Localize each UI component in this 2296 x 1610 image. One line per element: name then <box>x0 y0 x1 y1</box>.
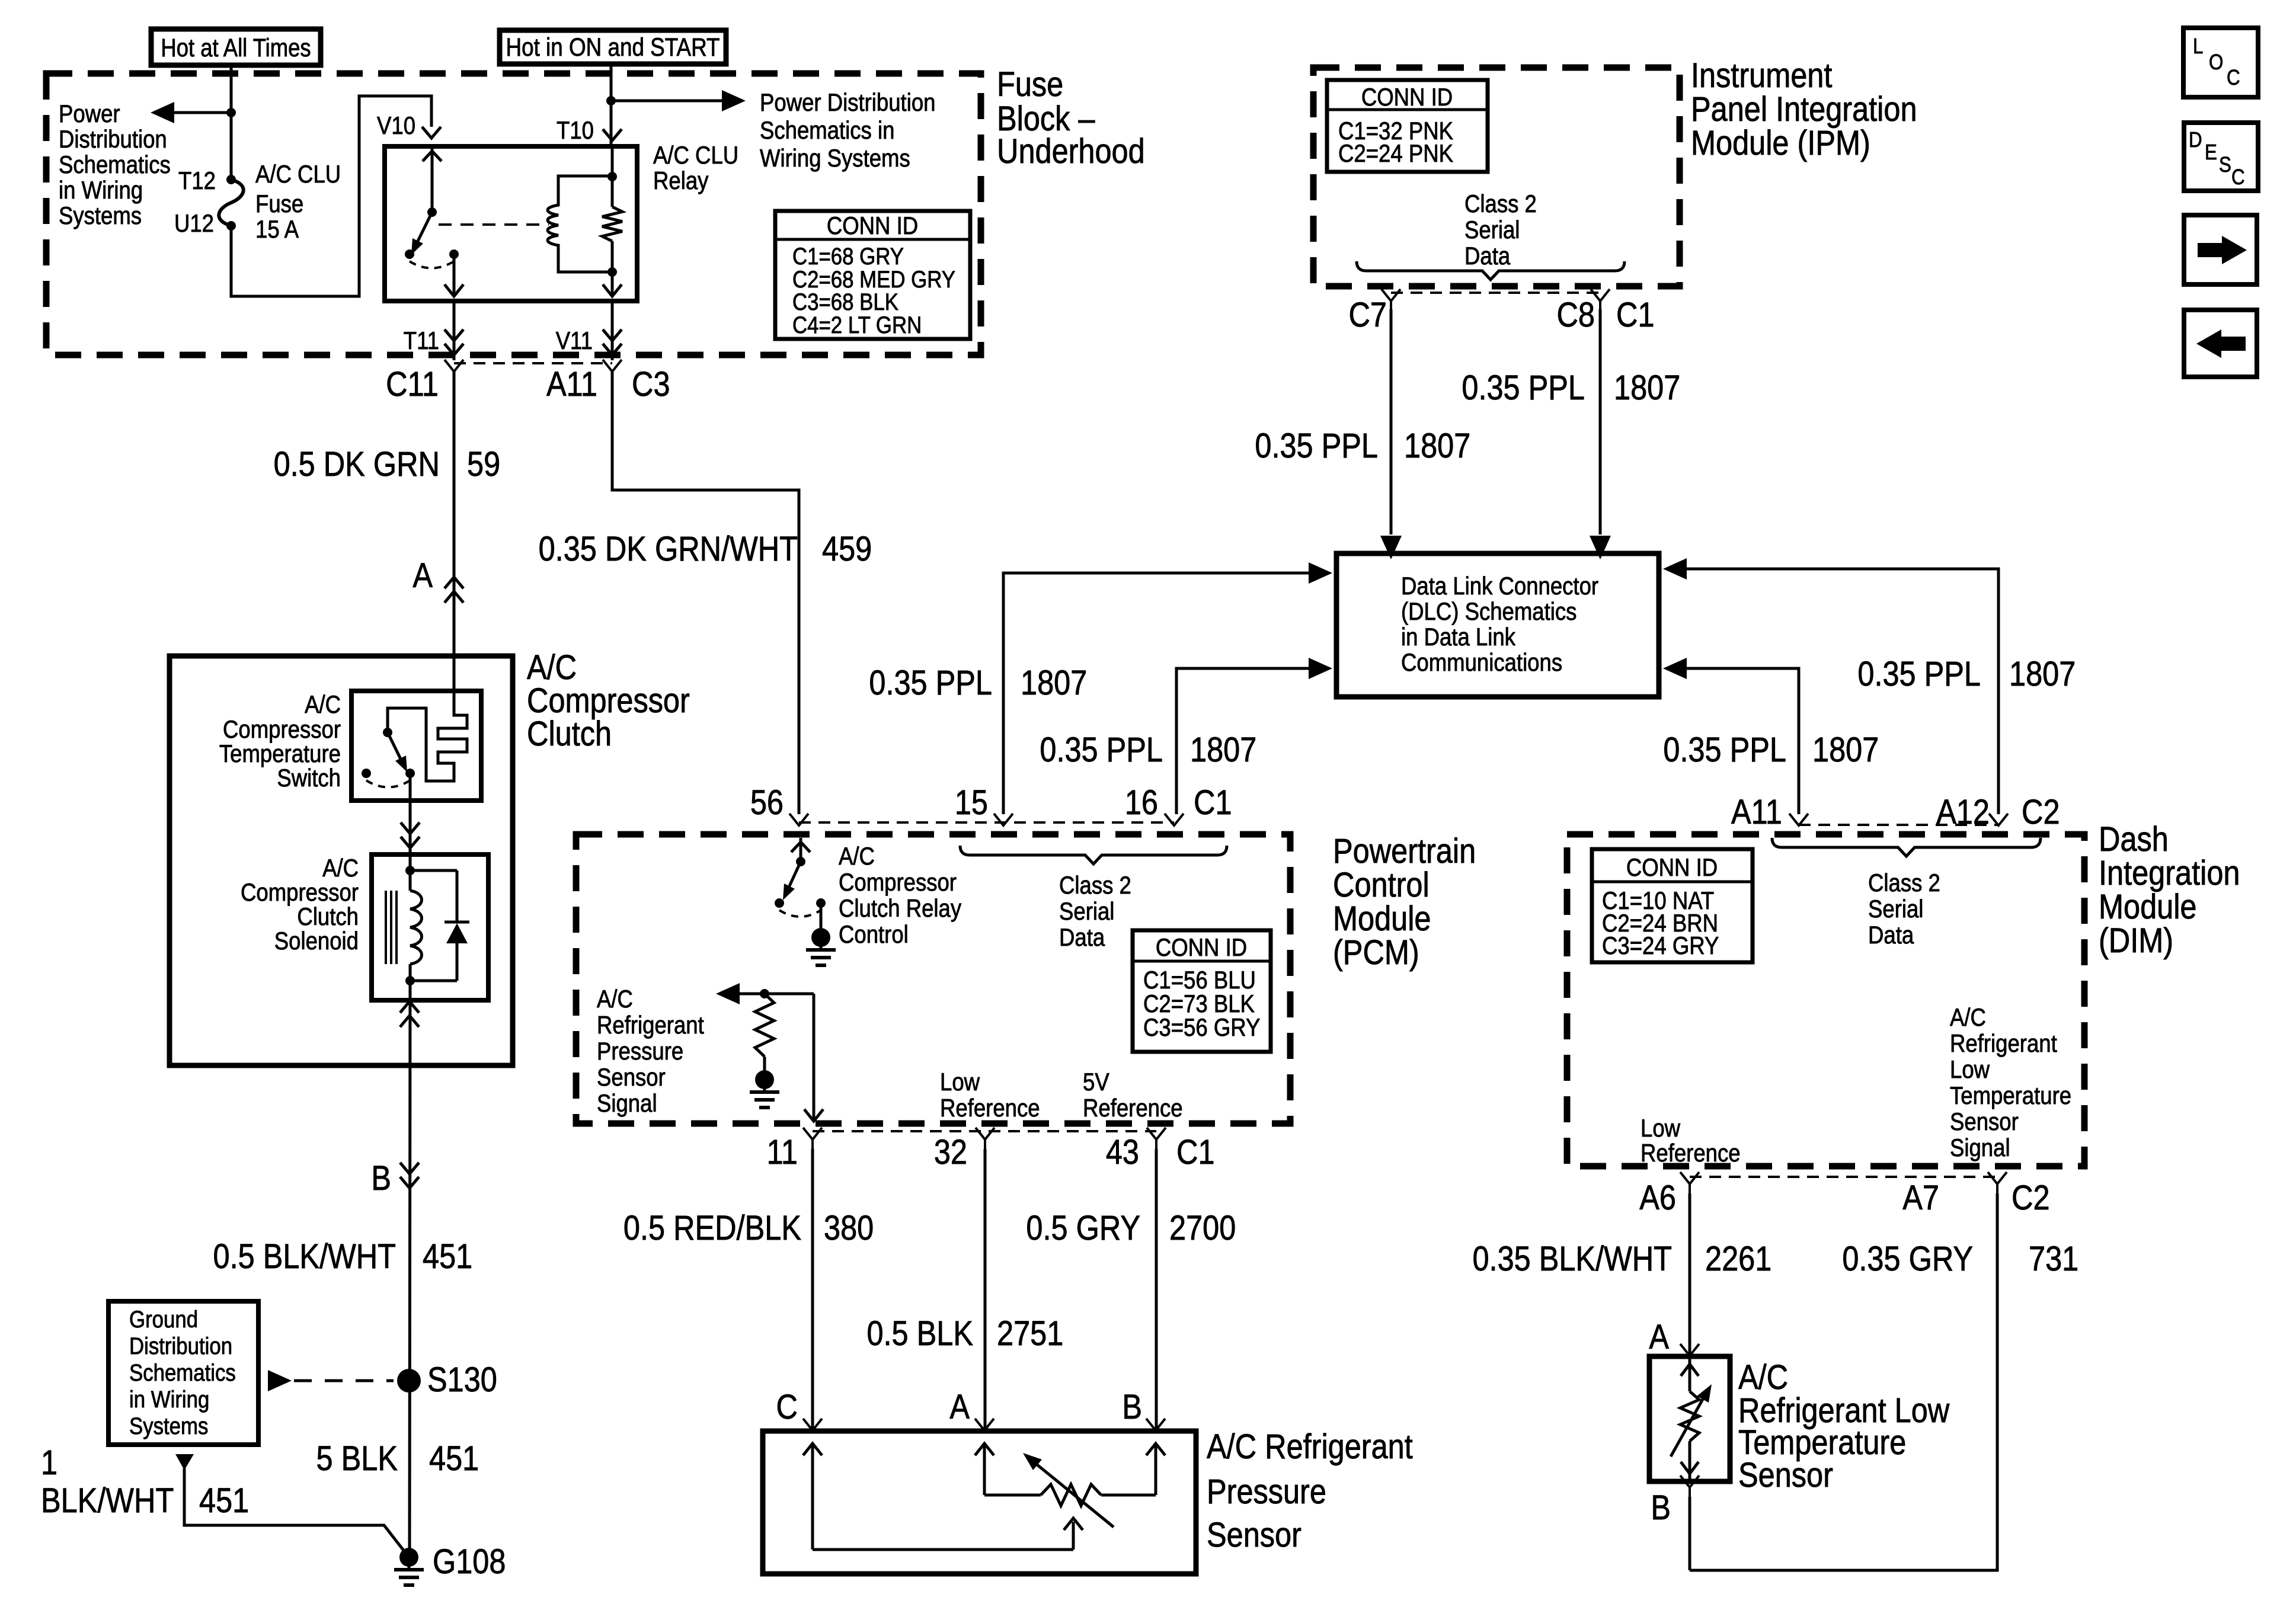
svg-text:451: 451 <box>199 1481 249 1520</box>
connector 16 C1 <box>1165 814 1184 825</box>
svg-text:0.35 GRY: 0.35 GRY <box>1842 1240 1973 1278</box>
svg-text:C4=2 LT GRN: C4=2 LT GRN <box>792 312 922 338</box>
relay switch contacts <box>405 249 414 259</box>
wire 1 BLK/WHT to G108 <box>175 1454 194 1470</box>
svg-text:A/C: A/C <box>322 854 359 882</box>
svg-text:CONN ID: CONN ID <box>827 212 918 240</box>
svg-text:2700: 2700 <box>1169 1209 1236 1247</box>
svg-text:0.35 BLK/WHT: 0.35 BLK/WHT <box>1472 1240 1672 1278</box>
svg-text:A/C: A/C <box>839 843 875 870</box>
relay switch throw dashed arc <box>410 261 454 268</box>
ground PCM sensor signal <box>755 1070 774 1089</box>
relay T10 pin internal <box>611 146 614 177</box>
wire A7 0.35 GRY 731 <box>1690 1193 1997 1570</box>
svg-text:A/C CLU: A/C CLU <box>255 161 341 188</box>
svg-text:C: C <box>2227 66 2240 90</box>
svg-text:Systems: Systems <box>129 1413 208 1439</box>
svg-text:Refrigerant: Refrigerant <box>597 1012 704 1039</box>
svg-text:A11: A11 <box>1731 793 1782 831</box>
Dash Integration Module dashed box <box>1567 834 2084 1166</box>
wire DIM A11 to DLC 0.35 PPL 1807 <box>1687 668 1799 814</box>
A/C Compressor Clutch box <box>170 656 513 1065</box>
svg-text:459: 459 <box>822 530 872 568</box>
svg-text:Data: Data <box>1059 924 1105 952</box>
wire C7 0.35 PPL 1807 to DLC <box>1390 309 1393 534</box>
svg-text:Underhood: Underhood <box>997 132 1145 171</box>
svg-text:1807: 1807 <box>1614 369 1680 407</box>
connector C at sensor <box>803 1419 822 1430</box>
svg-text:5 BLK: 5 BLK <box>316 1439 398 1478</box>
Powertrain Control Module dashed box <box>576 834 1290 1124</box>
svg-text:T11: T11 <box>404 327 439 355</box>
svg-text:D: D <box>2189 128 2202 152</box>
svg-text:0.5 BLK: 0.5 BLK <box>866 1314 973 1353</box>
svg-text:Dash: Dash <box>2099 820 2169 859</box>
svg-text:Sensor: Sensor <box>1207 1516 1302 1554</box>
svg-text:Data: Data <box>1868 921 1914 949</box>
svg-text:0.5 DK GRN: 0.5 DK GRN <box>274 445 440 484</box>
svg-text:32: 32 <box>934 1133 967 1172</box>
svg-text:A6: A6 <box>1639 1179 1676 1217</box>
svg-text:16: 16 <box>1125 783 1158 822</box>
svg-text:Data: Data <box>1464 242 1510 270</box>
svg-text:1807: 1807 <box>1404 427 1470 465</box>
splice S130 <box>397 1369 421 1393</box>
svg-text:L: L <box>2193 34 2203 59</box>
svg-text:Class 2: Class 2 <box>1868 869 1940 897</box>
svg-text:Class 2: Class 2 <box>1464 190 1537 218</box>
wire PCM 15 to DLC 0.35 PPL 1807 <box>1003 573 1309 814</box>
svg-text:U12: U12 <box>174 210 214 238</box>
svg-text:Module: Module <box>2099 888 2197 926</box>
svg-text:Compressor: Compressor <box>839 869 957 897</box>
svg-text:C3: C3 <box>632 365 670 404</box>
wire fuse U12 to relay V10 <box>231 96 431 296</box>
svg-text:1: 1 <box>41 1443 57 1482</box>
temperature switch heater element <box>388 691 467 781</box>
relay coil <box>548 176 612 272</box>
inline connector dashed line PCM top <box>799 821 1174 824</box>
svg-text:Communications: Communications <box>1401 649 1562 677</box>
svg-text:451: 451 <box>429 1439 479 1478</box>
icon LOC box <box>2183 28 2258 97</box>
node relay coil top <box>607 172 617 181</box>
PCM A/C refrigerant pressure sensor signal circuit <box>716 983 740 1004</box>
svg-text:56: 56 <box>750 783 784 822</box>
svg-text:Clutch: Clutch <box>527 715 612 753</box>
Ground Distribution Schematics box <box>108 1301 258 1445</box>
svg-text:Temperature: Temperature <box>219 740 341 768</box>
fuse block underhood dashed outline <box>46 73 981 355</box>
svg-text:Power Distribution: Power Distribution <box>760 89 935 117</box>
DIM class 2 brace <box>1772 838 2041 856</box>
inline connector dashed line DIM bottom <box>1690 1176 1997 1178</box>
node solenoid top <box>405 866 415 875</box>
svg-text:Data Link Connector: Data Link Connector <box>1401 572 1598 600</box>
svg-text:CONN ID: CONN ID <box>1156 934 1247 962</box>
svg-text:C: C <box>776 1388 798 1426</box>
svg-text:C2=24 PNK: C2=24 PNK <box>1338 140 1453 168</box>
svg-text:in Data Link: in Data Link <box>1401 623 1515 651</box>
svg-text:A12: A12 <box>1936 793 1990 831</box>
svg-text:Power: Power <box>59 100 120 128</box>
svg-text:2751: 2751 <box>997 1314 1063 1353</box>
potentiometer variable arrow <box>1031 1459 1114 1527</box>
svg-text:BLK/WHT: BLK/WHT <box>41 1481 174 1520</box>
svg-text:Low: Low <box>940 1068 980 1096</box>
wire from Hot at All Times to fuse T12 <box>230 65 233 180</box>
svg-text:V11: V11 <box>556 327 593 355</box>
svg-text:B: B <box>1651 1489 1671 1527</box>
svg-text:A7: A7 <box>1902 1179 1939 1217</box>
svg-text:A/C: A/C <box>1950 1004 1986 1032</box>
wire C8 0.35 PPL 1807 to DLC <box>1599 309 1602 534</box>
connector chevron at temp sensor A <box>1680 1344 1699 1356</box>
svg-text:S: S <box>2219 153 2231 177</box>
svg-text:731: 731 <box>2029 1240 2078 1278</box>
inline connector dashed line C11-A11 <box>454 362 612 364</box>
icon forward arrow box <box>2184 215 2257 284</box>
inline connector dashed line C7-C8 <box>1391 292 1600 294</box>
wire arrows at A <box>445 591 463 603</box>
thermistor variable arrow <box>1671 1396 1705 1457</box>
connector A6 <box>1680 1172 1699 1184</box>
svg-text:11: 11 <box>767 1133 798 1172</box>
wire arrows at B <box>400 1163 419 1174</box>
Instrument Panel Integration Module dashed box <box>1313 68 1680 286</box>
svg-text:S130: S130 <box>427 1361 497 1399</box>
svg-text:Sensor: Sensor <box>1738 1456 1833 1494</box>
svg-text:Low: Low <box>1641 1115 1681 1142</box>
IPM class 2 brace <box>1357 261 1625 280</box>
svg-text:Reference: Reference <box>940 1094 1040 1122</box>
ground PCM relay control <box>811 928 830 947</box>
svg-text:Clutch: Clutch <box>297 903 359 931</box>
svg-text:T12: T12 <box>178 167 216 195</box>
svg-text:Serial: Serial <box>1059 898 1114 926</box>
solenoid core bars <box>385 891 387 964</box>
Data Link Connector DLC box <box>1336 553 1659 697</box>
A/C Refrigerant Low Temperature Sensor box <box>1649 1356 1730 1481</box>
svg-text:Refrigerant: Refrigerant <box>1950 1030 2057 1058</box>
connector A at sensor <box>975 1419 994 1430</box>
svg-text:O: O <box>2209 50 2223 75</box>
fuse F T12/U12 A/C CLU Fuse 15 A <box>226 175 236 184</box>
wire 0.5 DK GRN 59 to compressor clutch <box>453 372 456 715</box>
svg-text:Compressor: Compressor <box>223 716 341 744</box>
connector C8 C1 <box>1591 289 1610 301</box>
wire arrow to Power Distribution Schematics (right) <box>611 100 728 103</box>
PCM class 2 brace <box>960 846 1227 864</box>
svg-text:A: A <box>949 1388 970 1426</box>
solenoid clamp diode D <box>410 869 457 872</box>
svg-text:T10: T10 <box>557 117 594 145</box>
inline connector dashed line DIM top <box>1799 824 1998 826</box>
svg-text:Schematics: Schematics <box>59 151 171 179</box>
svg-text:A: A <box>412 556 433 595</box>
wire 0.35 DK GRN/WHT 459 from A11/C3 to PCM 56 <box>612 372 799 814</box>
svg-text:Module: Module <box>1333 900 1431 938</box>
connector A11 at DIM <box>1789 814 1808 825</box>
svg-text:C1: C1 <box>1176 1133 1215 1172</box>
connector 11 <box>803 1128 822 1140</box>
svg-text:Sensor: Sensor <box>597 1064 666 1092</box>
icon back arrow box <box>2184 310 2257 377</box>
svg-text:Reference: Reference <box>1083 1094 1183 1122</box>
svg-text:C2: C2 <box>2012 1179 2050 1217</box>
svg-text:Hot at All Times: Hot at All Times <box>161 34 311 62</box>
svg-text:Pressure: Pressure <box>597 1038 683 1065</box>
node junction at T10 feed <box>606 96 616 105</box>
connector C7 <box>1382 289 1400 301</box>
A/C Compressor Temperature Switch box <box>351 691 481 801</box>
connector C11 <box>445 360 463 372</box>
svg-text:59: 59 <box>467 445 500 484</box>
svg-text:Temperature: Temperature <box>1950 1082 2071 1110</box>
relay switch common pin V10 <box>431 146 434 212</box>
svg-text:Hot in ON and START: Hot in ON and START <box>506 33 720 62</box>
svg-text:Serial: Serial <box>1868 895 1923 923</box>
svg-text:B: B <box>371 1159 391 1198</box>
svg-text:A/C CLU: A/C CLU <box>653 142 738 169</box>
temperature switch arm <box>388 732 404 765</box>
DIM CONN ID table <box>1592 849 1753 962</box>
svg-text:1807: 1807 <box>2009 655 2076 693</box>
svg-text:A: A <box>1649 1318 1669 1356</box>
IPM CONN ID table <box>1327 80 1488 172</box>
wire 32 0.5 BLK 2751 to pressure sensor A <box>984 1149 987 1430</box>
svg-text:Distribution: Distribution <box>59 126 167 153</box>
A/C Refrigerant Pressure Sensor box <box>763 1431 1196 1574</box>
svg-text:Signal: Signal <box>597 1090 657 1118</box>
wire 43 0.5 GRY 2700 to pressure sensor B <box>1155 1149 1158 1430</box>
svg-text:Instrument: Instrument <box>1691 56 1832 95</box>
temperature switch throw dashed arc <box>366 780 410 788</box>
relay coil shunt resistor <box>611 177 614 207</box>
svg-text:C3=56 GRY: C3=56 GRY <box>1143 1014 1260 1042</box>
svg-text:C1: C1 <box>1194 783 1232 822</box>
svg-text:Integration: Integration <box>2099 854 2240 892</box>
wire arrow to Power Distribution Schematics <box>168 111 231 114</box>
connector chevron V10 <box>422 127 441 138</box>
node relay coil bottom <box>607 267 617 277</box>
svg-text:C3=24 GRY: C3=24 GRY <box>1602 932 1719 960</box>
banner Hot in ON and START <box>500 30 726 64</box>
wire 11 0.5 RED/BLK 380 to pressure sensor C <box>811 1149 814 1430</box>
connector chevron T10 <box>603 129 622 140</box>
svg-text:1807: 1807 <box>1021 664 1087 702</box>
svg-text:Systems: Systems <box>59 202 142 230</box>
svg-text:0.35 PPL: 0.35 PPL <box>869 664 992 702</box>
sensor pin A internal <box>983 1443 986 1495</box>
svg-text:in Wiring: in Wiring <box>59 177 143 204</box>
svg-text:0.35 PPL: 0.35 PPL <box>1663 731 1786 769</box>
svg-text:15 A: 15 A <box>255 216 299 244</box>
connector 56 <box>789 814 808 825</box>
wire T11 relay to fuse block edge <box>453 301 456 360</box>
svg-text:1807: 1807 <box>1190 731 1256 769</box>
temperature switch pivot <box>383 728 392 737</box>
inline connector dashed line PCM bottom <box>813 1130 1156 1132</box>
node junction at fuse feed <box>226 108 236 117</box>
svg-text:Reference: Reference <box>1641 1140 1741 1167</box>
connector B at sensor <box>1146 1419 1165 1430</box>
connector 43 C1 <box>1147 1128 1166 1140</box>
svg-text:0.35 PPL: 0.35 PPL <box>1462 369 1585 407</box>
connector A12 C2 at DIM <box>1989 814 2008 825</box>
wire sensor signal to pin 11 <box>813 994 816 1121</box>
connector A11 C3 <box>603 360 622 372</box>
ground G108 <box>399 1548 418 1567</box>
wire A6 0.35 BLK/WHT 2261 to temp sensor A <box>1689 1193 1691 1356</box>
solenoid coil <box>409 870 412 891</box>
sensor pin C internal <box>811 1443 814 1550</box>
relay actuate dashed link <box>439 223 549 226</box>
svg-text:15: 15 <box>955 783 988 822</box>
svg-text:C8: C8 <box>1556 296 1595 334</box>
node solenoid bottom <box>405 976 415 985</box>
svg-text:Ground: Ground <box>129 1306 198 1333</box>
svg-text:CONN ID: CONN ID <box>1626 854 1718 882</box>
svg-text:1807: 1807 <box>1812 731 1879 769</box>
svg-text:Schematics in: Schematics in <box>760 117 894 145</box>
svg-text:0.35 PPL: 0.35 PPL <box>1040 731 1163 769</box>
svg-text:43: 43 <box>1106 1133 1139 1172</box>
svg-text:Fuse: Fuse <box>255 190 303 218</box>
banner Hot at All Times <box>151 29 321 65</box>
svg-text:2261: 2261 <box>1705 1240 1771 1278</box>
A/C Compressor Clutch Solenoid box <box>372 854 488 1000</box>
sensor pin B internal <box>1155 1443 1157 1495</box>
svg-text:(DIM): (DIM) <box>2099 921 2173 960</box>
fuse block CONN ID table <box>775 211 970 339</box>
svg-text:Control: Control <box>1333 866 1430 904</box>
connector A7 C2 <box>1988 1172 2007 1184</box>
svg-text:Control: Control <box>839 921 909 949</box>
svg-text:in Wiring: in Wiring <box>129 1386 209 1413</box>
svg-text:Compressor: Compressor <box>241 879 359 907</box>
svg-text:Pressure: Pressure <box>1207 1473 1326 1511</box>
svg-text:0.35 DK GRN/WHT: 0.35 DK GRN/WHT <box>539 530 798 568</box>
svg-text:(DLC) Schematics: (DLC) Schematics <box>1401 598 1576 626</box>
svg-text:0.35 PPL: 0.35 PPL <box>1255 427 1378 465</box>
svg-text:Class 2: Class 2 <box>1059 872 1131 900</box>
relay switch arm <box>415 212 432 247</box>
svg-text:E: E <box>2205 140 2217 165</box>
svg-text:C: C <box>2231 165 2245 190</box>
connector 32 <box>976 1128 994 1140</box>
wire temp switch to solenoid <box>409 773 412 870</box>
relay switch output pin to T11 <box>453 254 456 296</box>
wire solenoid to pin B and ground <box>410 981 410 1557</box>
svg-text:A11: A11 <box>546 365 597 404</box>
svg-text:451: 451 <box>423 1237 472 1276</box>
svg-text:Powertrain: Powertrain <box>1333 832 1476 870</box>
svg-text:Signal: Signal <box>1950 1134 2010 1162</box>
PCM CONN ID table <box>1133 930 1271 1052</box>
svg-text:Distribution: Distribution <box>129 1333 232 1359</box>
relay V11 pin internal arrow <box>611 272 614 296</box>
svg-text:Relay: Relay <box>653 167 709 195</box>
svg-text:G108: G108 <box>433 1542 506 1581</box>
svg-text:V10: V10 <box>377 112 415 140</box>
svg-text:C2: C2 <box>2022 793 2060 831</box>
svg-text:CONN ID: CONN ID <box>1361 84 1453 111</box>
svg-text:Schematics: Schematics <box>129 1359 236 1386</box>
svg-text:C1: C1 <box>1616 296 1655 334</box>
PCM A/C compressor clutch relay control switch <box>800 838 802 862</box>
connector B at temp sensor <box>1680 1475 1699 1487</box>
svg-text:Solenoid: Solenoid <box>274 927 359 955</box>
temperature switch contacts <box>362 769 371 778</box>
connector 15 <box>994 814 1013 825</box>
svg-text:0.5 RED/BLK: 0.5 RED/BLK <box>623 1209 801 1247</box>
relay K A/C CLU Relay box <box>385 146 637 301</box>
svg-text:0.5 GRY: 0.5 GRY <box>1026 1209 1140 1247</box>
wire V11 relay to fuse block edge <box>611 301 614 360</box>
svg-text:C11: C11 <box>386 365 439 404</box>
svg-text:C7: C7 <box>1348 296 1387 334</box>
svg-text:Fuse: Fuse <box>997 65 1063 104</box>
svg-text:B: B <box>1122 1388 1142 1426</box>
svg-text:A/C: A/C <box>305 691 341 719</box>
potentiometer R track <box>984 1494 1041 1497</box>
svg-text:Clutch Relay: Clutch Relay <box>839 895 961 923</box>
svg-text:(PCM): (PCM) <box>1333 933 1419 972</box>
wire DIM A12 to DLC 0.35 PPL 1807 <box>1687 569 1998 814</box>
wire temp sensor B <box>1689 1497 1691 1570</box>
icon DESC box <box>2184 123 2258 191</box>
svg-text:Wiring Systems: Wiring Systems <box>760 145 910 172</box>
svg-text:Module (IPM): Module (IPM) <box>1691 124 1870 162</box>
svg-text:0.35 PPL: 0.35 PPL <box>1857 655 1981 693</box>
svg-text:A/C Refrigerant: A/C Refrigerant <box>1207 1427 1413 1466</box>
wire Hot in ON and START to relay T10 <box>610 64 613 146</box>
arrow ground distribution to S130 dashed <box>268 1370 292 1391</box>
svg-text:A/C: A/C <box>597 985 633 1013</box>
svg-text:Switch: Switch <box>277 764 341 792</box>
svg-text:0.5 BLK/WHT: 0.5 BLK/WHT <box>213 1237 396 1276</box>
thermistor RT element <box>1689 1356 1691 1391</box>
svg-text:Sensor: Sensor <box>1950 1108 2019 1136</box>
svg-text:Low: Low <box>1950 1056 1990 1084</box>
wire PCM 16 to DLC 0.35 PPL 1807 <box>1176 668 1309 814</box>
svg-text:380: 380 <box>824 1209 874 1247</box>
potentiometer wiper from C <box>813 1548 1073 1551</box>
svg-text:Serial: Serial <box>1464 216 1520 244</box>
svg-text:Panel Integration: Panel Integration <box>1691 90 1917 129</box>
svg-text:5V: 5V <box>1083 1068 1109 1096</box>
